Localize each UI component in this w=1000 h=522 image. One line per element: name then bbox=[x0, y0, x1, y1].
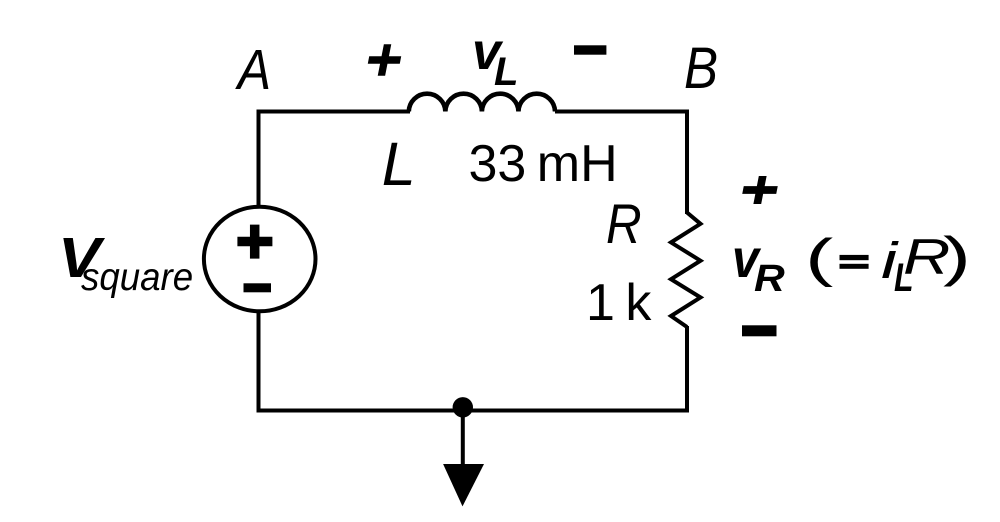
label v_R : subscript R bbox=[754, 260, 785, 298]
label V_square : subscript square bbox=[81, 258, 193, 297]
ground arrow bbox=[443, 464, 484, 506]
voltage source V_square circle bbox=[204, 207, 316, 312]
plus sign polarity v_L (top, slanted) bbox=[365, 44, 403, 76]
minus sign polarity v_R (right) bbox=[742, 325, 777, 336]
parenthesis open of ( = i_L R) bbox=[805, 232, 833, 285]
label v_L : v bbox=[472, 26, 501, 78]
wire top-right segment inductor to B bbox=[555, 110, 689, 114]
label v_L : subscript L bbox=[494, 52, 518, 92]
resistance symbol R in parens bbox=[903, 232, 950, 282]
plus sign polarity v_R (right, slanted) bbox=[740, 176, 779, 204]
minus sign polarity v_L (top) bbox=[574, 45, 606, 54]
current subscript L bbox=[894, 258, 914, 298]
wire left vertical bbox=[257, 110, 261, 413]
node label B bbox=[684, 40, 718, 98]
ground stub wire bbox=[461, 408, 465, 467]
parenthesis close bbox=[943, 229, 971, 284]
label V_square : V bbox=[58, 230, 101, 287]
label v_R : v bbox=[732, 232, 759, 286]
label L bbox=[382, 134, 416, 195]
node label A bbox=[238, 42, 271, 99]
value 33 mH bbox=[469, 138, 618, 190]
wire top-left segment A to inductor bbox=[257, 110, 411, 114]
value 1 k bbox=[586, 277, 651, 329]
plus sign inside source bbox=[237, 225, 272, 259]
current label i bbox=[881, 235, 897, 286]
inductor L1 33 mH bbox=[409, 94, 555, 112]
resistor R 1k zigzag bbox=[671, 213, 701, 328]
equals sign of ( = i_L R) bbox=[840, 255, 869, 269]
wire right vertical top (B to resistor) bbox=[685, 110, 689, 215]
wire right vertical bottom (resistor to bottom rail) bbox=[685, 326, 689, 413]
label R bbox=[606, 196, 642, 252]
minus sign inside source bbox=[244, 283, 272, 292]
wire bottom rail bbox=[257, 409, 690, 413]
junction node dot bbox=[453, 397, 473, 417]
